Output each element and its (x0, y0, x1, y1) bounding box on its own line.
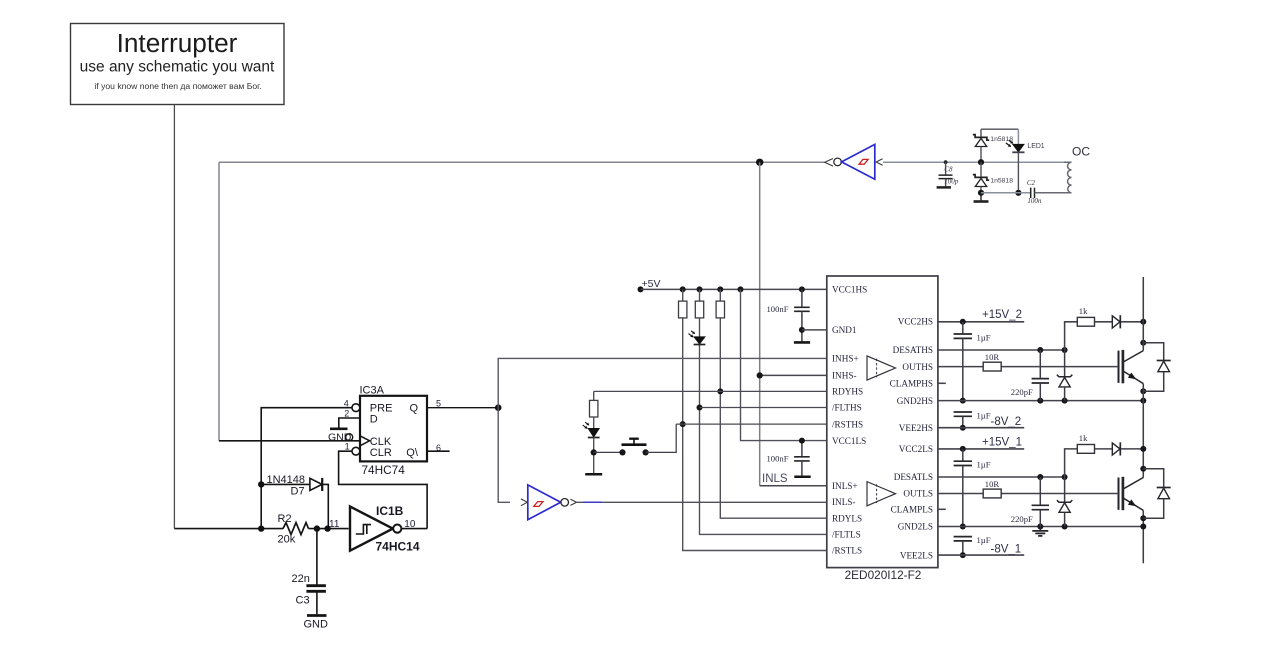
node GND2LS cap tap (960, 524, 966, 530)
node Q junction (495, 404, 502, 411)
wire inverter input to OC node (883, 161, 1064, 163)
svg-text:1µF: 1µF (977, 333, 991, 343)
svg-text:GND2LS: GND2LS (898, 522, 933, 532)
wire CLAMPLS stub (938, 508, 946, 510)
CLK edge marker (360, 436, 370, 446)
wire RDY vertical net (720, 289, 827, 518)
svg-text:DESATLS: DESATLS (894, 472, 933, 482)
svg-text:2: 2 (344, 409, 349, 419)
wire VEE2LS pin (938, 554, 1024, 556)
wire 1k branch low side (1065, 449, 1144, 477)
buffer triangle LS inside IC (867, 482, 896, 506)
svg-text:INHS+: INHS+ (832, 354, 859, 364)
wire collector rail (1142, 277, 1144, 563)
PRE inversion bubble (352, 404, 360, 412)
svg-text:use any schematic you want: use any schematic you want (80, 59, 275, 76)
resistor R2 20k (278, 513, 309, 546)
svg-text:Q: Q (410, 403, 419, 415)
svg-text:22n: 22n (292, 573, 310, 585)
svg-text:/FLTLS: /FLTLS (832, 530, 861, 540)
inverter U2 top (schmitt, output left) (825, 144, 883, 179)
LED ready indicator (583, 422, 600, 473)
resistor pull-up RDY (716, 301, 724, 318)
svg-text:RDYLS: RDYLS (832, 513, 862, 523)
pushbutton reset (619, 439, 648, 456)
diode freewheel low side (1143, 469, 1170, 519)
wire DESATHS pin (938, 349, 1065, 351)
svg-text:1µF: 1µF (977, 411, 991, 421)
svg-text:RDYHS: RDYHS (832, 387, 863, 397)
wire GND1 pin (802, 329, 827, 331)
resistor 10R low side (983, 479, 1001, 498)
wire Q-bar pin 6 stub (427, 450, 450, 452)
node VCC2LS cap tap (960, 446, 966, 452)
svg-text:INHS-: INHS- (832, 371, 857, 381)
diode zener DESAT low side (1057, 477, 1072, 527)
node C8 tap (944, 160, 948, 164)
svg-text:-8V_1: -8V_1 (991, 543, 1022, 555)
ground at D pin (330, 427, 348, 430)
wire INLS+ pin (760, 485, 827, 487)
capacitor 100nF high side (767, 289, 810, 341)
svg-text:OC: OC (1072, 145, 1090, 159)
wire PRE net (261, 408, 352, 529)
wire LED junction to button (594, 451, 623, 453)
capacitor 100nF low side (767, 441, 810, 476)
ground earth below 220pF LS (1032, 527, 1048, 536)
svg-text:GND1: GND1 (832, 325, 857, 335)
svg-text:5: 5 (436, 398, 441, 408)
wire OUTLS pin (938, 493, 1118, 495)
wire INLS- net (577, 501, 827, 503)
wire VCC2HS pin (938, 321, 1024, 323)
svg-text:/FLTHS: /FLTHS (832, 403, 862, 413)
svg-text:DESATHS: DESATHS (893, 345, 933, 355)
diode D lower 1n5818 (973, 162, 1013, 193)
wire R2 net horizontal (174, 528, 348, 530)
node lower diode junction (978, 190, 984, 196)
node DESATHS taps (1037, 347, 1043, 353)
wire OUTHS pin (938, 366, 1118, 368)
wire DESATLS pin (938, 476, 1065, 478)
capacitor C3 22n (292, 573, 326, 614)
node LED bottom junction (1015, 190, 1021, 196)
svg-text:220pF: 220pF (1011, 514, 1033, 524)
LED LED1 (1006, 129, 1045, 193)
svg-text:D: D (370, 413, 378, 425)
wire /RST vertical net (683, 289, 827, 550)
wire bottom link (981, 192, 1030, 194)
wire D pin to ground (339, 418, 360, 428)
node D7 anode junction (258, 481, 264, 487)
svg-text:1k: 1k (1079, 433, 1088, 443)
svg-text:100nF: 100nF (767, 453, 789, 463)
svg-text:74HC74: 74HC74 (362, 463, 406, 477)
node R2 left junction (258, 525, 264, 531)
svg-text:VEE2HS: VEE2HS (899, 423, 933, 433)
node diode mid junction (978, 159, 984, 165)
svg-text:220pF: 220pF (1011, 387, 1033, 397)
capacitor 1uF VEE2HS (954, 411, 991, 428)
node mid rail taps LS (1140, 446, 1146, 452)
svg-text:C3: C3 (296, 594, 310, 606)
ground below C3 (307, 614, 327, 617)
svg-text:OUTLS: OUTLS (903, 489, 933, 499)
capacitor 220pF high side (1011, 350, 1049, 401)
ground below ready LED (585, 473, 602, 476)
svg-text:D7: D7 (291, 486, 305, 498)
wire 1k branch high side (1065, 322, 1144, 350)
wire vertical clock net (218, 162, 220, 441)
svg-text:C8: C8 (944, 165, 953, 173)
svg-text:if you know none then да помож: if you know none then да поможет вам Бог… (94, 81, 261, 91)
svg-text:GND: GND (304, 618, 329, 630)
wire +5V rail (641, 288, 827, 290)
svg-text:IC1B: IC1B (376, 504, 404, 518)
wire GND2LS pin (938, 526, 1143, 528)
wire /FLTHS pin (700, 407, 827, 409)
svg-text:R2: R2 (278, 513, 292, 525)
capacitor 1uF VCC2HS (954, 322, 991, 401)
ground below C8 (937, 186, 951, 189)
buffer triangle HS inside IC (867, 356, 896, 380)
svg-text:1n5818: 1n5818 (990, 178, 1013, 185)
resistor RDY-LED branch (590, 391, 598, 428)
wire CLAMPHS stub (938, 382, 946, 384)
wire VCC1LS net (741, 289, 827, 440)
transistor IGBT Q1 high side (1119, 350, 1144, 384)
svg-text:Interrupter: Interrupter (117, 28, 238, 58)
svg-text:10R: 10R (985, 479, 1000, 489)
wire RDYHS pin (594, 390, 827, 392)
svg-text:20k: 20k (278, 534, 296, 546)
svg-text:CLR: CLR (370, 447, 392, 459)
node LED-ground junction (591, 449, 597, 455)
bubble artifact at CLK (346, 434, 353, 441)
capacitor C2 100n (1027, 179, 1042, 205)
wire VCC2LS pin (938, 448, 1024, 450)
node rail taps (680, 286, 686, 292)
svg-text:1k: 1k (1079, 306, 1088, 316)
svg-text:+15V_1: +15V_1 (982, 436, 1022, 448)
resistor 1k low side (1077, 433, 1094, 453)
svg-text:-8V_2: -8V_2 (991, 416, 1022, 428)
node C3 junction (314, 525, 320, 531)
diode freewheel high side (1143, 343, 1170, 392)
svg-text:11: 11 (329, 519, 340, 530)
node VCC1LS cap junction (799, 438, 805, 444)
node /RSTHS junction (680, 421, 686, 427)
wire CLR to IC1B output (339, 451, 428, 528)
svg-text:+15V_2: +15V_2 (982, 309, 1022, 321)
svg-text:1µF: 1µF (977, 460, 991, 470)
svg-text:VCC2HS: VCC2HS (898, 317, 933, 327)
svg-text:VCC1LS: VCC1LS (832, 436, 866, 446)
wire GND2HS pin (938, 400, 1143, 402)
inverter U3 low side (schmitt, output right) (521, 485, 577, 520)
node collector rail taps HS (1140, 319, 1146, 325)
diode DESAT blanking high side (1112, 315, 1120, 328)
svg-text:10R: 10R (985, 352, 1000, 362)
wire button to /RST net (646, 424, 677, 452)
ground below 100nF LS (794, 475, 810, 478)
svg-text:INLS-: INLS- (832, 497, 855, 507)
wire from interrupter box to R2 net (173, 105, 175, 529)
node /FLTHS junction (697, 405, 703, 411)
inductor OC winding (1064, 162, 1072, 193)
svg-text:OUTHS: OUTHS (902, 362, 933, 372)
svg-text:C2: C2 (1027, 179, 1036, 187)
svg-text:+5V: +5V (642, 278, 661, 290)
wire to C3 (316, 529, 318, 586)
ground below 100nF HS (794, 341, 810, 344)
svg-text:CLAMPLS: CLAMPLS (891, 505, 933, 515)
node VEE2HS cap tap (960, 425, 966, 431)
transistor IGBT Q2 low side (1119, 477, 1144, 511)
resistor pull-up RST (679, 301, 687, 318)
node GND2HS cap tap (960, 398, 966, 404)
svg-text:74HC14: 74HC14 (376, 539, 420, 553)
flip-flop IC3A 74HC74 (360, 385, 428, 477)
node GND1 junction (799, 327, 805, 333)
capacitor C8 100p (939, 162, 959, 186)
svg-text:100nF: 100nF (767, 304, 789, 314)
svg-text:1µF: 1µF (977, 535, 991, 545)
svg-text:VCC2LS: VCC2LS (899, 444, 933, 454)
wire INHS+ net (498, 358, 827, 502)
diode D7 1N4148 (267, 474, 323, 497)
diode zener DESAT high side (1057, 350, 1072, 401)
wire vertical IN- net (759, 162, 761, 485)
node INHS- junction (757, 372, 763, 378)
node clock junction (756, 159, 763, 166)
wire VEE2HS pin (938, 427, 1024, 429)
svg-text:LED1: LED1 (1027, 143, 1044, 150)
ground below diodes (974, 193, 989, 202)
CLR inversion bubble (352, 447, 360, 455)
wire top link diode to LED (981, 128, 1018, 130)
IC U4 2ED020I12-F2 gate driver (827, 276, 938, 568)
wire /FLT vertical net (700, 289, 827, 534)
svg-text:100p: 100p (944, 178, 959, 186)
wire CLK into flip-flop (219, 440, 360, 442)
wire diode D7 net (261, 484, 328, 528)
node VEE2LS cap tap (960, 552, 966, 558)
svg-text:IC3A: IC3A (360, 385, 385, 397)
wire INHS- pin (760, 374, 827, 376)
node GND2LS taps (1037, 524, 1043, 530)
capacitor 220pF low side (1011, 477, 1049, 527)
node DESATLS taps (1037, 474, 1043, 480)
wire C2 to coil (1035, 192, 1072, 194)
svg-text:2ED020I12-F2: 2ED020I12-F2 (845, 568, 922, 582)
svg-text:VCC1HS: VCC1HS (832, 284, 867, 294)
diode D upper 1n5818 (973, 129, 1013, 162)
svg-text:/RSTLS: /RSTLS (832, 546, 862, 556)
capacitor 1uF VEE2LS (954, 535, 991, 555)
svg-text:INLS: INLS (762, 473, 788, 485)
svg-text:/RSTHS: /RSTHS (832, 419, 863, 429)
resistor pull-up FLT (695, 301, 703, 318)
svg-text:CLAMPHS: CLAMPHS (890, 379, 933, 389)
resistor 1k high side (1077, 306, 1094, 326)
capacitor 1uF VCC2LS (954, 449, 991, 527)
wire /RSTHS pin (676, 423, 827, 425)
LED fault indicator (689, 331, 706, 345)
Interrupter title box (71, 24, 285, 105)
svg-text:1N4148: 1N4148 (267, 474, 306, 486)
node D7 cathode junction (324, 525, 330, 531)
svg-text:INLS+: INLS+ (832, 481, 858, 491)
resistor 10R high side (983, 352, 1001, 371)
node GND2HS taps (1037, 398, 1043, 404)
node VCC2HS cap tap (960, 319, 966, 325)
svg-text:100n: 100n (1027, 197, 1042, 205)
wire IC1B output (401, 528, 427, 530)
svg-text:VEE2LS: VEE2LS (900, 550, 933, 560)
diode DESAT blanking low side (1112, 442, 1120, 455)
inverter IC1B 74HC14 (350, 504, 420, 553)
svg-text:Q\: Q\ (406, 447, 419, 459)
svg-text:GND2HS: GND2HS (897, 396, 933, 406)
wire INLS- blue highlighted segment (583, 501, 602, 503)
wire Q pin 5 (427, 407, 498, 409)
node RDYHS junction (717, 388, 723, 394)
wire top long horizontal (clock net from inverter to CLK) (219, 161, 825, 163)
